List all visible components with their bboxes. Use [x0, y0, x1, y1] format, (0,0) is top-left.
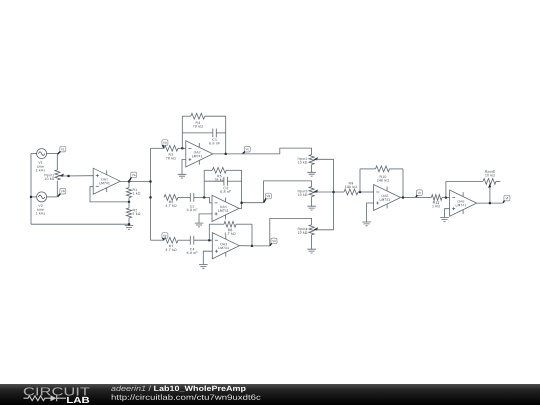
junction OA1 output / R1 — [128, 180, 131, 183]
wire R2 to ground — [128, 218, 130, 224]
wire to R4 — [182, 115, 191, 117]
potentiometer Rpot4 — [309, 225, 314, 235]
junction wiper wire — [67, 175, 70, 178]
wire Rpot1 wiper to OA1 + — [63, 175, 94, 177]
wire OA1 feedback to R1/R2 node — [90, 187, 129, 202]
wire C2 to OA4 - — [194, 197, 212, 203]
junction OA2 out / feedback — [224, 153, 227, 156]
op-amp OA6 — [450, 190, 477, 216]
op-amp OA1 — [93, 168, 120, 194]
wire OA4 feedback right — [241, 170, 243, 202]
node Ve — [162, 233, 168, 240]
wire OA6 output — [477, 202, 503, 204]
footer title text — [111, 386, 145, 392]
wire OA6 feedback left — [445, 181, 447, 197]
junction OA5 input / feedback — [359, 191, 362, 194]
resistor R7 — [164, 237, 178, 243]
resistor R3 — [164, 145, 178, 151]
ground OA2 — [178, 174, 187, 178]
wire R4 to output branch — [205, 115, 226, 117]
resistor R6 — [164, 195, 178, 201]
wire R1 to R2 — [128, 198, 130, 202]
node Vb — [162, 140, 168, 148]
ground OA6 — [440, 218, 449, 222]
wire to R2 — [128, 202, 130, 208]
wire feedback to Rpot5 — [446, 180, 483, 182]
wire Rpot4 wiper to mix bus — [316, 229, 334, 231]
resistor R5 — [212, 167, 226, 173]
junction OA3 input / feedback — [208, 239, 211, 242]
wire Va distribution bus — [150, 148, 152, 240]
wire OA4 + to ground — [199, 214, 212, 223]
ground Rpot3 — [307, 206, 316, 210]
junction OA4 out / feedback — [240, 201, 243, 204]
wire bottom return to ground — [31, 223, 129, 225]
wire OA2 feedback right — [225, 116, 227, 154]
wire OA4 out to Rpot3 — [239, 181, 312, 209]
ground OA4 — [195, 223, 204, 227]
wire V2 left — [31, 196, 37, 198]
wire VL to Rpot1 top — [56, 154, 58, 170]
potentiometer Rpot1 — [55, 170, 60, 180]
capacitor C1 — [213, 129, 217, 138]
wire to C1 — [182, 132, 213, 134]
junction OA6 out / Rpot5 wiper — [489, 202, 492, 205]
wire Rpot2 wiper to mix bus — [316, 158, 334, 160]
node VR — [58, 188, 66, 196]
junction OA2 input / feedback — [181, 147, 184, 150]
wire C1 to output branch — [216, 132, 225, 134]
wire C3 to output branch — [227, 180, 241, 182]
wire R6 to C2 — [178, 196, 190, 198]
junction OA6 input / feedback — [445, 196, 448, 199]
wire Rpot5 right stub — [496, 180, 500, 182]
wire Vn to R11 — [416, 197, 432, 199]
junction mixer bus / R9 — [332, 191, 335, 194]
op-amp OA5 — [374, 185, 401, 211]
wire V2 right to node VR — [47, 196, 58, 198]
wire OA5 feedback right — [402, 169, 404, 198]
ground Rpot4 — [307, 249, 316, 253]
wire to R10 — [360, 168, 376, 170]
wire OA3 feedback left — [208, 224, 210, 240]
node Vh — [270, 238, 277, 246]
wire Rpot1 bottom to VR — [56, 181, 58, 197]
wire bus to R7 — [151, 239, 165, 241]
junction OA5 out / feedback — [402, 196, 405, 199]
CircuitLab logo circuit line with resistor and diode — [24, 395, 67, 401]
junction bus / R6 branch — [149, 196, 152, 199]
capacitor C4 — [190, 236, 194, 245]
wire bus to R9 — [334, 191, 344, 193]
wire R3 to OA2 - — [178, 147, 186, 149]
wire OA6 + to ground — [445, 209, 450, 218]
CircuitLab logo wordmark CIRCUIT — [24, 387, 90, 395]
junction R1/R2/feedback — [128, 201, 131, 204]
wire Rpot4 bottom — [311, 235, 313, 249]
wire OA3 out to Rpot4 — [252, 218, 312, 246]
voltage source V2 — [37, 192, 47, 202]
CircuitLab logo wordmark LAB — [67, 397, 89, 403]
voltage source V1 — [37, 149, 47, 159]
op-amp OA4 — [212, 195, 239, 221]
wire OA3 output — [239, 245, 252, 247]
wire OA2 out to Rpot2 — [243, 148, 312, 155]
capacitor C2 — [190, 193, 194, 202]
node VL — [58, 146, 66, 154]
wire left return bus — [30, 154, 32, 225]
footer bar — [0, 384, 540, 405]
wire R11 to OA6 - — [442, 197, 450, 199]
wire to R1 — [128, 182, 130, 188]
wire OA2 output — [213, 153, 243, 155]
resistor R4 — [191, 113, 205, 119]
resistor R11 — [431, 195, 442, 201]
node Vf — [503, 195, 510, 203]
wire to C3 — [204, 180, 224, 182]
wire OA5 + to ground — [367, 203, 374, 222]
wire R10 to output branch — [390, 168, 404, 170]
junction R2 / return — [128, 223, 131, 226]
wire mixer bus — [333, 159, 335, 230]
node Vc — [243, 146, 251, 153]
wire Rpot3 wiper to mix bus — [316, 191, 334, 193]
wire bus to R3 — [151, 147, 165, 149]
resistor R8 — [224, 221, 236, 227]
junction V2 on return bus — [30, 196, 33, 199]
potentiometer Rpot5 element — [483, 179, 496, 185]
wire R5 to output branch — [226, 169, 241, 171]
wire C4 to OA3 - — [194, 239, 213, 241]
potentiometer Rpot5 wiper — [488, 183, 491, 188]
op-amp OA2 — [186, 141, 213, 167]
wire Rpot5 wiper to output — [489, 187, 491, 203]
wire OA3 feedback right — [251, 224, 253, 246]
wire OA2 + to ground — [182, 160, 186, 175]
wire OA3 + to ground — [203, 251, 212, 264]
node Vd — [264, 193, 272, 202]
wire V1 left — [31, 153, 37, 155]
wire OA5 feedback left — [359, 169, 361, 192]
capacitor C3 — [224, 177, 228, 186]
resistor R10 — [376, 166, 390, 172]
resistor R2 — [126, 208, 131, 218]
wire R9 to OA5 - — [358, 191, 374, 193]
junction OA4 input / feedback — [203, 196, 206, 199]
wire to R8 — [209, 223, 224, 225]
ground Rpot2 — [307, 172, 316, 176]
wire R7 to C4 — [178, 239, 190, 241]
wire OA5 output — [401, 197, 416, 199]
node Va — [129, 172, 137, 181]
wire Rpot2 bottom — [311, 165, 313, 173]
wire OA4 feedback left — [203, 170, 205, 197]
potentiometer Rpot2 — [309, 155, 314, 165]
wire R8 to output branch — [236, 223, 252, 225]
ground OA3 — [199, 265, 208, 269]
resistor R1 — [126, 188, 131, 198]
junction OA3 out / feedback — [251, 245, 254, 248]
wire OA1 output — [120, 181, 150, 183]
op-amp OA3 — [212, 233, 239, 259]
footer url text — [112, 394, 261, 401]
resistor R9 — [344, 189, 358, 195]
ground OA5 — [362, 222, 371, 226]
potentiometer Rpot3 — [309, 187, 314, 197]
wire to R5 — [204, 169, 212, 171]
wire Rpot3 bottom — [311, 197, 313, 207]
wire V1 right to node VL — [47, 153, 58, 155]
ground OA1 divider — [125, 226, 134, 230]
junction bus / OA1 out — [149, 180, 152, 183]
wire OA2 feedback left — [181, 116, 183, 148]
node Vn — [416, 190, 422, 197]
